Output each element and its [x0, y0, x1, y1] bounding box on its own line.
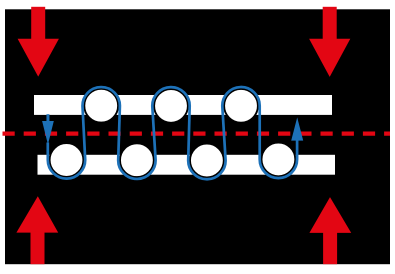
blue yarn end arrow left (down) — [42, 114, 54, 144]
bottom yarn cross-section circle B4 — [262, 143, 296, 177]
red press force arrow top-left (down) — [18, 7, 59, 77]
top yarn cross-section circle T1 — [84, 89, 118, 123]
bottom yarn cross-section circle B1 — [50, 143, 84, 177]
red press force arrow bottom-left (up) — [16, 196, 58, 264]
blue yarn end arrow right (up) — [291, 117, 303, 140]
red dashed center line — [3, 132, 391, 136]
bottom yarn cross-section circle B2 — [120, 143, 154, 177]
bottom press plate (white bar) — [38, 155, 336, 175]
bottom yarn cross-section circle B3 — [190, 144, 224, 178]
red press force arrow top-right (down) — [309, 7, 350, 77]
red press force arrow bottom-right (up) — [309, 197, 351, 264]
blue binder yarn path — [48, 87, 297, 179]
top yarn cross-section circle T3 — [224, 89, 258, 123]
top yarn cross-section circle T2 — [154, 89, 188, 123]
top press plate (white bar) — [34, 95, 332, 115]
